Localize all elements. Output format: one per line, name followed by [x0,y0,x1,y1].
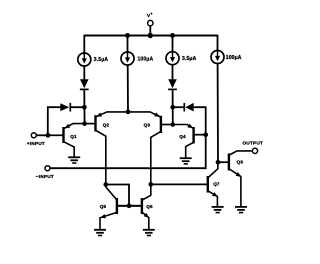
wire CS1 top stub [83,35,85,53]
node E CS4 Q7 collector Q8 base [216,160,221,165]
node +input junction [46,133,51,138]
node D Q3 base Q4 emitter [170,122,175,127]
current source I1 3.5uA [78,53,91,66]
node mirror base tie [127,203,132,208]
ground for Q1 collector [68,157,80,163]
transistor Q3 [128,112,173,184]
terminal OUTPUT [252,148,257,153]
wire node C to node D [172,107,174,124]
transistor Q8 [229,151,253,207]
transistor Q7 [208,162,219,207]
node G Q3 collector Q6 collector Q7 base [148,182,153,187]
ground for Q7 emitter [212,207,224,213]
svg-text:100μA: 100μA [226,55,242,61]
wire +INPUT to junction [36,134,48,136]
node A D1-D2 cathodes [82,105,87,110]
wire CS2 to emitter rail [127,65,129,112]
node Q4 base D4 anode [203,132,208,137]
node Q2 Q3 emitter rail CS2 [126,110,131,115]
wire D4 cathode to node C [173,106,184,108]
svg-text:Q5: Q5 [100,204,107,209]
wire V+ stub [149,26,151,35]
node rail-CS2 [125,33,130,38]
current source I4 100uA [211,51,224,64]
diode D1 [80,79,89,89]
wire CS4 to node E [217,35,220,163]
terminal V+ [148,20,153,25]
wire D4 anode down to Q4 base node [194,107,206,135]
transistor Q6 [129,184,151,229]
ground for Q6 emitter [143,230,155,236]
svg-text:Q2: Q2 [103,122,110,127]
node F Q2 collector Q5 collector [103,182,108,187]
svg-text:Q8: Q8 [237,160,244,165]
node rail-V+ [148,33,153,38]
wire CS2 top stub [127,35,129,52]
wire CS3 to D3 [172,65,174,80]
svg-text:Q1: Q1 [70,134,77,139]
ground for Q8 emitter [235,207,247,213]
wire mirror base rail [117,205,141,207]
svg-text:3.5μA: 3.5μA [182,56,197,62]
wire node A to node B [83,107,85,123]
diode D2 [60,103,70,112]
svg-text:Q7: Q7 [213,182,220,187]
wire CS1 to D1 [83,66,85,80]
node rail-CS3 [170,33,175,38]
svg-text:−INPUT: −INPUT [36,174,54,180]
node B Q1 emitter Q2 base [82,121,87,126]
diode D4 [184,103,193,112]
svg-text:100μA: 100μA [138,56,154,62]
wire CS3 top stub [172,35,174,52]
wire node G to Q7 base [151,183,208,185]
wire node E to Q8 base [218,161,229,163]
transistor Q1 [48,124,85,158]
ground for Q5 emitter [94,230,106,236]
wire node F tie to mirror base rail [106,185,129,206]
wire D3 cathode to node C [172,90,174,108]
svg-text:Q4: Q4 [179,134,186,139]
node junction dots [46,33,221,208]
wire D1 cathode to node A [83,90,85,108]
wire D2 cathode to node A [70,106,84,108]
terminal -INPUT [45,166,50,171]
svg-text:Q3: Q3 [144,122,151,127]
svg-text:OUTPUT: OUTPUT [242,141,263,147]
wire -INPUT line to Q4 base node [50,135,206,169]
svg-text:V+: V+ [147,12,153,19]
ground for Q4 collector [180,158,192,164]
transistor Q2 [85,112,129,185]
wire junction up to D2 anode [48,107,61,135]
node C D3-D4 cathodes [170,105,175,110]
wire V+ rail [84,35,217,37]
current source I3 3.5uA [166,52,179,65]
diode D3 [168,79,177,89]
transistor Q4 [173,124,206,159]
svg-text:3.5μA: 3.5μA [94,57,109,63]
svg-text:+INPUT: +INPUT [27,141,45,147]
svg-text:Q6: Q6 [146,204,153,209]
terminal +INPUT [31,133,36,138]
current source I2 100uA [121,52,134,65]
transistor Q5 [99,185,129,230]
